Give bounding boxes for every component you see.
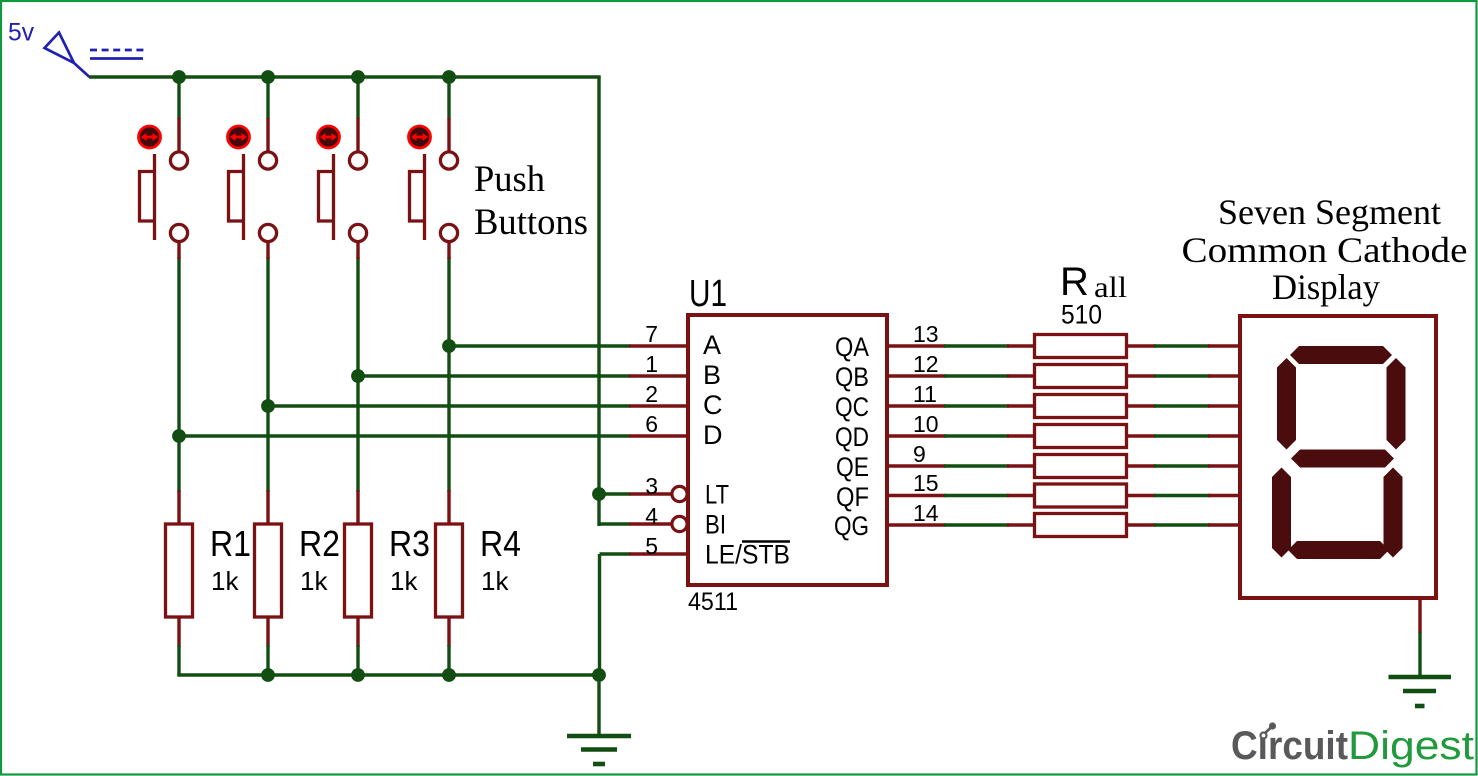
svg-text:QB: QB (835, 362, 869, 392)
power symbol solid line (90, 57, 143, 60)
svg-text:BI: BI (705, 510, 726, 540)
wire LT (599, 492, 630, 495)
output row QA net 13 (886, 335, 1242, 358)
svg-text:5: 5 (645, 533, 658, 559)
wire ground drop mid (597, 675, 600, 736)
wire button1 to resistor (177, 257, 180, 492)
wire input D (179, 434, 630, 437)
pin stub LT (629, 492, 671, 495)
output row QF net 15 (886, 484, 1242, 507)
svg-text:B: B (703, 360, 721, 390)
wire bottom rail (177, 673, 600, 676)
junction dot rail 1 (172, 70, 186, 84)
push button SW1 (139, 118, 188, 259)
segment d (1288, 541, 1389, 559)
ground right (1389, 677, 1452, 706)
svg-text:1: 1 (645, 351, 658, 377)
junction dot input C (261, 399, 275, 413)
svg-text:Cırcuit: Cırcuit (1231, 724, 1348, 768)
resistor R3 (345, 490, 372, 675)
svg-text:R3: R3 (389, 523, 430, 564)
svg-text:5v: 5v (8, 19, 34, 47)
wire button1 drop (177, 77, 180, 119)
output row QE net 9 (886, 455, 1242, 478)
svg-text:QG: QG (834, 511, 869, 541)
svg-text:510: 510 (1061, 300, 1102, 330)
resistor R4 (436, 490, 463, 675)
pin stub A (629, 344, 689, 347)
logo probe icon (1264, 727, 1272, 735)
wire button4 drop (447, 77, 450, 119)
junction dot LT (592, 487, 606, 501)
svg-text:Common Cathode: Common Cathode (1182, 230, 1468, 270)
junction dot rail 3 (351, 70, 365, 84)
output row QD net 10 (886, 425, 1242, 448)
svg-text:15: 15 (913, 470, 939, 496)
svg-text:2: 2 (645, 381, 658, 407)
svg-text:QC: QC (835, 392, 869, 422)
junction dot rail 2 (261, 70, 275, 84)
svg-text:7: 7 (645, 321, 658, 347)
STB overline (742, 540, 790, 543)
svg-text:6: 6 (645, 411, 658, 437)
ground mid (567, 736, 631, 764)
wire button2 to resistor (266, 257, 269, 492)
svg-text:R1: R1 (210, 523, 251, 564)
display cathode pin (1418, 598, 1421, 633)
svg-text:QD: QD (835, 422, 869, 452)
output row QB net 12 (886, 365, 1242, 388)
svg-text:R2: R2 (299, 523, 340, 564)
seven segment display body (1240, 316, 1436, 598)
wire button4 to resistor (447, 257, 450, 492)
junction dot bottom 4 (442, 668, 456, 682)
svg-text:Push: Push (474, 159, 545, 200)
segment e (1272, 468, 1291, 558)
svg-text:1k: 1k (390, 566, 418, 596)
wire button3 to resistor (356, 257, 359, 492)
segment a (1290, 346, 1392, 364)
segment c (1384, 468, 1403, 558)
wire top rail (89, 75, 601, 78)
junction dot input D (172, 429, 186, 443)
svg-text:4511: 4511 (688, 588, 738, 616)
segment g (1291, 450, 1394, 468)
svg-text:LE/STB: LE/STB (705, 540, 790, 570)
push button SW4 (409, 118, 458, 259)
svg-text:R4: R4 (480, 523, 521, 564)
segment b (1387, 358, 1406, 450)
wire button2 drop (266, 77, 269, 119)
push button SW2 (228, 118, 277, 259)
svg-text:C: C (703, 390, 723, 420)
svg-text:QF: QF (836, 482, 869, 512)
svg-text:Display: Display (1272, 267, 1380, 307)
output row QG net 14 (886, 514, 1242, 537)
junction dot rail 4 (442, 70, 456, 84)
svg-text:13: 13 (913, 321, 939, 347)
svg-text:U1: U1 (689, 273, 727, 315)
wire LE horizontal (600, 552, 631, 555)
resistor R1 (166, 490, 193, 675)
svg-text:1k: 1k (481, 566, 509, 596)
svg-text:3: 3 (645, 473, 658, 499)
power symbol dashed line (90, 49, 144, 52)
pin stub BI (629, 522, 671, 525)
op IC U1 4511 (688, 315, 887, 585)
svg-text:Digest: Digest (1348, 724, 1474, 768)
power symbol tail wire (74, 63, 90, 77)
power symbol triangle (45, 33, 75, 64)
pin stub B (629, 374, 689, 377)
svg-text:QA: QA (835, 332, 869, 362)
svg-text:9: 9 (913, 441, 926, 467)
wire LE vertical (598, 554, 601, 675)
wire right vertical x=599 (597, 77, 600, 526)
wire input A (449, 344, 630, 347)
junction dot bottom 3 (351, 668, 365, 682)
svg-text:QE: QE (836, 452, 869, 482)
inversion bubble LT (672, 486, 687, 501)
wire input C (268, 404, 630, 407)
pin stub D (629, 434, 689, 437)
svg-text:1k: 1k (211, 566, 239, 596)
svg-text:LT: LT (705, 480, 729, 510)
segment f (1277, 358, 1296, 450)
svg-text:A: A (703, 330, 721, 360)
svg-text:12: 12 (913, 351, 939, 377)
output row QC net 11 (886, 395, 1242, 418)
display cathode wire (1418, 632, 1421, 678)
svg-text:D: D (703, 420, 723, 450)
wire button3 drop (356, 77, 359, 119)
inversion bubble BI (672, 516, 687, 531)
wire BI (599, 522, 630, 525)
pin stub C (629, 404, 689, 407)
svg-text:1k: 1k (300, 566, 328, 596)
junction dot bottom 2 (261, 668, 275, 682)
svg-text:14: 14 (913, 500, 939, 526)
svg-text:4: 4 (645, 503, 658, 529)
resistor R2 (255, 490, 282, 675)
junction dot input A (442, 339, 456, 353)
svg-text:Seven Segment: Seven Segment (1218, 192, 1441, 232)
svg-text:Buttons: Buttons (474, 202, 588, 243)
push button SW3 (318, 118, 367, 259)
svg-text:10: 10 (913, 411, 939, 437)
svg-text:11: 11 (913, 381, 937, 407)
wire input B (358, 374, 630, 377)
junction dot input B (351, 369, 365, 383)
svg-text:R: R (1060, 260, 1089, 304)
pin stub LE (629, 552, 689, 555)
junction dot bottom ground (592, 668, 606, 682)
